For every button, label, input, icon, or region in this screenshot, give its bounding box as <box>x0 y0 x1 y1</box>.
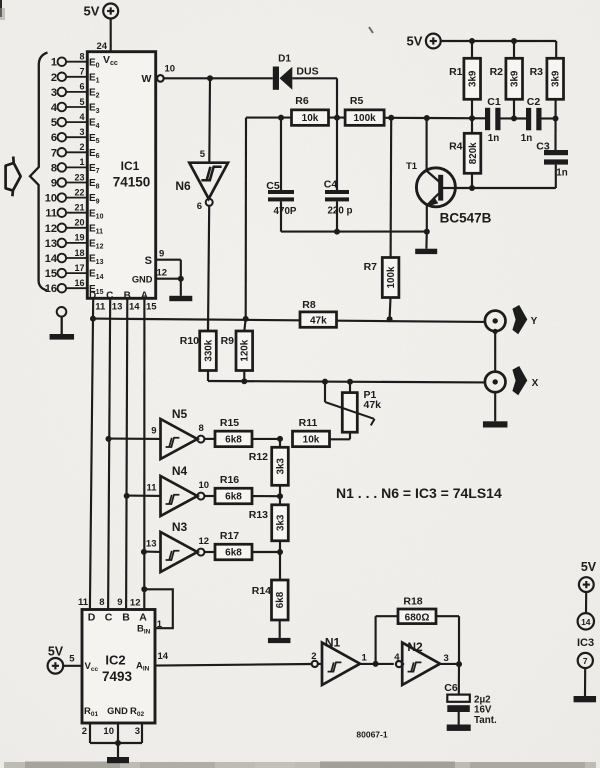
diode D1 <box>210 54 337 90</box>
node R16-R12-R13 <box>277 493 283 499</box>
svg-text:13: 13 <box>112 302 123 313</box>
node T1 emitter ground <box>424 229 430 235</box>
svg-text:T1: T1 <box>406 161 418 172</box>
potentiometer P1 <box>325 382 381 440</box>
capacitor C4 <box>324 118 353 232</box>
svg-text:R17: R17 <box>220 530 239 542</box>
IC1 input E11 pin 20 row 12 <box>45 218 103 236</box>
IC2 top pin numbers <box>78 597 141 609</box>
IC1 input E14 pin 17 row 15 <box>45 263 104 281</box>
svg-text:22: 22 <box>74 187 84 197</box>
svg-text:C6: C6 <box>444 682 458 694</box>
svg-text:2: 2 <box>79 142 84 152</box>
svg-text:BC547B: BC547B <box>440 211 492 226</box>
IC2 bottom pins 2 10 3 <box>82 723 142 743</box>
wire bus B line IC1 pin14 to IC2 pin9 <box>126 298 127 609</box>
svg-text:12: 12 <box>157 268 168 279</box>
IC1 input E1 pin 7 row 2 <box>51 67 100 85</box>
svg-text:3k3: 3k3 <box>275 458 286 475</box>
wire 5V rail <box>441 40 557 42</box>
svg-text:1: 1 <box>51 57 57 69</box>
svg-text:100k: 100k <box>353 113 376 124</box>
resistor R3 <box>530 41 564 150</box>
svg-text:R2: R2 <box>490 66 504 78</box>
svg-text:7: 7 <box>51 147 57 159</box>
svg-text:21: 21 <box>74 203 84 213</box>
svg-text:5V: 5V <box>48 645 64 659</box>
svg-text:9: 9 <box>117 597 122 608</box>
resistor R18 <box>376 596 459 665</box>
svg-text:6: 6 <box>197 201 202 212</box>
wire R6 left leg down to R9/Y node <box>245 118 247 319</box>
arrow X <box>512 366 527 395</box>
input connector brace <box>30 53 48 291</box>
svg-text:R15: R15 <box>220 417 239 429</box>
wire Y line <box>93 319 485 322</box>
wire T1 collector to C3 <box>454 187 556 189</box>
svg-text:R4: R4 <box>449 141 463 153</box>
IC1 input E6 pin 2 row 7 <box>51 142 100 160</box>
IC2 Vcc pin 5 <box>63 654 98 674</box>
wire N6 input from node W <box>208 78 211 162</box>
inverter N3 <box>146 520 209 572</box>
ground IC3 pin7 <box>574 668 597 702</box>
svg-text:5: 5 <box>69 654 75 665</box>
svg-text:1n: 1n <box>521 133 532 144</box>
svg-text:6k8: 6k8 <box>225 548 242 559</box>
svg-text:14: 14 <box>581 617 591 627</box>
wire N4 input <box>127 495 161 497</box>
svg-text:IC3: IC3 <box>577 637 594 649</box>
power 5V supply IC3 <box>579 560 597 592</box>
svg-text:C4: C4 <box>324 179 338 191</box>
IC1 input E10 pin 21 row 11 <box>45 203 103 221</box>
wire C2-R3/C3 <box>542 117 556 119</box>
svg-text:DUS: DUS <box>296 66 318 78</box>
node R5-R7 tap <box>388 115 394 121</box>
ground X connector <box>483 392 508 427</box>
svg-text:R12: R12 <box>249 451 268 463</box>
svg-text:5V: 5V <box>84 4 100 19</box>
node A-line N3 tap <box>141 549 147 555</box>
svg-text:R1: R1 <box>449 66 463 78</box>
connector X output <box>485 372 506 393</box>
svg-text:10k: 10k <box>302 113 319 124</box>
arrow Y <box>512 305 527 334</box>
IC1 pin GND 12 <box>132 268 181 285</box>
svg-text:8: 8 <box>79 52 84 62</box>
svg-text:330k: 330k <box>203 339 214 361</box>
IC1 input E0 pin 8 row 1 <box>51 52 100 70</box>
svg-text:3: 3 <box>79 127 84 137</box>
wire N6 output down to R10 <box>208 206 209 331</box>
node rail R2 <box>511 38 517 44</box>
transistor T1 <box>406 118 492 232</box>
svg-text:R18: R18 <box>403 596 422 608</box>
svg-text:3: 3 <box>51 87 57 99</box>
svg-text:B: B <box>122 612 130 624</box>
scan artifact bottom band <box>4 762 596 768</box>
svg-text:14: 14 <box>129 302 140 313</box>
scan artifact small tick <box>369 27 373 33</box>
svg-text:220 p: 220 p <box>327 206 352 217</box>
svg-text:7: 7 <box>583 656 588 666</box>
wire R5 node down to R7 <box>390 118 393 258</box>
inverter N2 <box>394 640 449 685</box>
node P1 top <box>347 379 353 385</box>
svg-text:13: 13 <box>146 539 157 550</box>
node C-line N5 tap <box>106 436 112 442</box>
node base T1 tap <box>424 115 430 121</box>
node A-line BIN loop tap <box>141 586 147 592</box>
svg-text:3: 3 <box>444 653 449 664</box>
svg-text:R5: R5 <box>350 95 364 107</box>
power 5V supply top-right <box>407 34 441 49</box>
svg-text:1: 1 <box>362 653 368 664</box>
svg-text:9: 9 <box>159 249 164 260</box>
svg-text:3: 3 <box>135 726 140 737</box>
svg-text:5V: 5V <box>407 34 423 49</box>
svg-text:7493: 7493 <box>102 669 133 684</box>
svg-text:10: 10 <box>165 64 176 75</box>
svg-text:9: 9 <box>151 426 156 437</box>
svg-text:N6: N6 <box>175 179 191 193</box>
IC1 input E4 pin 4 row 5 <box>51 112 100 130</box>
svg-text:2: 2 <box>82 726 87 737</box>
svg-text:C2: C2 <box>527 96 541 108</box>
svg-text:N5: N5 <box>172 407 188 421</box>
svg-text:Y: Y <box>531 316 538 327</box>
ground IC1 S/GND <box>169 279 192 301</box>
ground R14 <box>268 638 291 643</box>
node R6-C5 <box>278 115 284 121</box>
svg-text:C: C <box>105 612 113 624</box>
IC2 top labels D C B A <box>88 612 148 624</box>
svg-text:1: 1 <box>79 157 84 167</box>
node R2-C1-C2 <box>511 115 517 121</box>
svg-text:R14: R14 <box>252 585 271 597</box>
svg-text:680Ω: 680Ω <box>405 612 430 623</box>
svg-text:GND: GND <box>107 706 128 716</box>
svg-text:R11: R11 <box>299 417 318 429</box>
svg-text:N4: N4 <box>172 464 188 478</box>
node N1-N2-R18 <box>373 661 379 667</box>
ground C6 <box>447 725 471 731</box>
svg-text:6k8: 6k8 <box>275 591 286 608</box>
resistor R11 <box>293 417 330 447</box>
node R6-R5-D1 <box>334 115 340 121</box>
node R9 bottom <box>241 378 247 384</box>
svg-text:14: 14 <box>158 651 169 662</box>
svg-text:23: 23 <box>74 172 84 182</box>
svg-text:1n: 1n <box>556 168 567 179</box>
svg-text:18: 18 <box>74 248 84 258</box>
svg-text:2: 2 <box>51 72 57 84</box>
wire C1-C2 <box>501 117 527 119</box>
svg-text:5V: 5V <box>581 560 597 574</box>
IC3 pin 7 circle <box>578 653 593 668</box>
resistor R16 <box>204 474 280 504</box>
ground IC2 <box>107 743 129 763</box>
resistor R15 <box>204 417 280 447</box>
svg-text:6: 6 <box>79 82 84 92</box>
svg-text:X: X <box>532 378 539 389</box>
svg-text:820k: 820k <box>468 142 479 164</box>
node R17-R13-R14 <box>277 549 283 555</box>
svg-text:74150: 74150 <box>113 175 151 190</box>
svg-text:47k: 47k <box>310 315 327 326</box>
svg-text:4: 4 <box>79 112 84 122</box>
svg-text:R13: R13 <box>249 509 268 521</box>
wire bus C line IC1 pin13 to IC2 pin8 <box>108 298 110 609</box>
svg-text:3k3: 3k3 <box>275 514 286 531</box>
svg-text:3k9: 3k9 <box>551 70 562 87</box>
resistor R7 <box>364 258 399 319</box>
svg-text:15: 15 <box>146 302 157 313</box>
resistor R10 <box>180 319 217 381</box>
resistor R9 <box>221 319 253 381</box>
wire 5V to IC1 pin 24 <box>110 19 112 53</box>
wire D1 anode down to R6/R5 node <box>336 78 338 117</box>
svg-text:5: 5 <box>79 97 84 107</box>
svg-text:11: 11 <box>78 597 89 608</box>
svg-text:16V: 16V <box>474 705 492 716</box>
node R1-R4 <box>469 115 475 121</box>
svg-text:R9: R9 <box>221 335 235 347</box>
svg-text:R16: R16 <box>220 474 239 486</box>
svg-text:R3: R3 <box>530 66 544 78</box>
svg-text:11: 11 <box>45 208 57 220</box>
svg-text:8: 8 <box>199 423 204 434</box>
svg-text:GND: GND <box>132 275 153 285</box>
IC1 input E7 pin 1 row 8 <box>51 157 100 175</box>
capacitor C6 tantalum <box>444 664 497 726</box>
node R15-R11-R12 <box>277 436 283 442</box>
svg-text:IC1: IC1 <box>121 159 140 173</box>
node rail R1 <box>469 38 475 44</box>
resistor R8 <box>300 299 337 328</box>
svg-text:14: 14 <box>45 253 58 265</box>
node R7-Y wire <box>387 316 393 322</box>
wire Y to X connector <box>494 331 496 371</box>
resistor R4 <box>449 118 481 188</box>
svg-text:11: 11 <box>146 483 157 494</box>
wire X line <box>208 381 485 382</box>
svg-text:6k8: 6k8 <box>225 492 242 503</box>
wire IC2 pin14 to N1 <box>155 664 312 666</box>
svg-text:1n: 1n <box>488 133 499 144</box>
svg-text:5: 5 <box>200 149 206 160</box>
svg-text:8: 8 <box>51 162 57 174</box>
wire bus A line IC1 pin15 to IC2 pin12 <box>143 298 145 609</box>
IC2 AIN pin 14 <box>136 651 169 673</box>
IC1 input E15 pin 16 row 16 <box>45 278 104 296</box>
IC2 bottom labels R01 GND R02 <box>84 706 144 718</box>
inverter N1 <box>311 636 367 686</box>
node N2-R18-C6 <box>456 661 462 667</box>
connector Y output <box>485 311 506 332</box>
svg-text:10: 10 <box>103 726 114 737</box>
inverter N4 <box>146 464 209 516</box>
svg-text:N3: N3 <box>172 520 188 534</box>
svg-text:19: 19 <box>74 233 84 243</box>
IC1 bottom pin numbers 11 13 14 15 <box>95 302 157 313</box>
IC1 input E9 pin 22 row 10 <box>45 187 100 205</box>
svg-text:N1 . . . N6 = IC3 = 74LS14: N1 . . . N6 = IC3 = 74LS14 <box>336 485 502 501</box>
svg-text:C1: C1 <box>487 96 501 108</box>
node R9 top <box>243 316 249 322</box>
wire N1 out to N2 in <box>360 663 394 665</box>
svg-text:S: S <box>145 255 152 267</box>
resistor R17 <box>204 530 280 560</box>
IC1 74150 body <box>87 52 155 299</box>
resistor R5 <box>345 95 427 125</box>
resistor R1 <box>449 41 480 118</box>
IC1 input E2 pin 6 row 3 <box>51 82 100 100</box>
wire bus D line IC1 pin11 to IC2 pin11 <box>90 298 93 609</box>
resistor R14 <box>252 552 288 638</box>
capacitor C3 <box>536 141 568 189</box>
svg-text:13: 13 <box>45 238 57 250</box>
svg-text:D: D <box>88 612 96 624</box>
svg-text:12: 12 <box>130 598 141 609</box>
svg-text:16: 16 <box>74 278 84 288</box>
svg-text:A: A <box>139 612 147 624</box>
IC1 pin S 9 <box>145 249 181 279</box>
svg-text:D1: D1 <box>278 54 291 65</box>
svg-text:20: 20 <box>74 218 84 228</box>
resistor R2 <box>490 41 523 118</box>
svg-text:8: 8 <box>99 597 104 608</box>
svg-text:47k: 47k <box>364 399 382 411</box>
capacitor C5 <box>266 118 297 232</box>
svg-text:80067-1: 80067-1 <box>356 730 387 740</box>
IC1 pin W 10 output <box>142 64 210 86</box>
svg-text:7: 7 <box>79 67 84 77</box>
svg-text:10: 10 <box>45 193 57 205</box>
IC2 BIN pin 1 with loop from A <box>137 589 173 635</box>
svg-text:12: 12 <box>45 223 57 235</box>
svg-text:12: 12 <box>199 536 210 547</box>
power 5V supply IC2 <box>48 645 64 674</box>
svg-text:11: 11 <box>95 302 106 313</box>
IC1 input E5 pin 3 row 6 <box>51 127 100 145</box>
ground input common <box>50 307 75 340</box>
IC1 input E13 pin 18 row 14 <box>45 248 104 266</box>
svg-text:17: 17 <box>74 263 84 273</box>
node W-D1-N6 <box>207 75 213 81</box>
input bus arrow symbol <box>6 157 21 197</box>
svg-text:IC2: IC2 <box>105 653 125 668</box>
ground T1 emitter <box>415 232 437 254</box>
svg-text:R6: R6 <box>295 95 309 107</box>
inverter N6 <box>175 149 228 212</box>
scan artifact left edge <box>0 0 2 17</box>
node S-GND junction <box>178 276 184 282</box>
svg-text:6k8: 6k8 <box>225 435 242 446</box>
IC1 bottom labels D C B A <box>89 291 148 302</box>
svg-text:100k: 100k <box>386 266 397 288</box>
node IC2 ground <box>115 740 121 746</box>
svg-text:3k9: 3k9 <box>468 70 479 87</box>
node C4 ground <box>334 229 340 235</box>
svg-text:R8: R8 <box>302 299 316 311</box>
resistor R12 <box>249 439 289 496</box>
inverter N5 <box>151 407 204 459</box>
svg-text:470P: 470P <box>274 206 297 217</box>
resistor R6 <box>246 95 345 125</box>
IC1 input E8 pin 23 row 9 <box>51 172 100 190</box>
svg-text:9: 9 <box>51 178 57 190</box>
IC3 pin 14 circle <box>578 613 594 629</box>
node R3-C3 <box>553 116 559 122</box>
svg-text:Tant.: Tant. <box>474 715 497 726</box>
wire 5V to IC3 pin14 <box>585 592 587 613</box>
wire ground rail C5 C4 emitter <box>281 231 427 233</box>
IC1 input E12 pin 19 row 13 <box>45 233 104 251</box>
node B-line N4 tap <box>124 493 130 499</box>
svg-text:15: 15 <box>45 268 57 280</box>
svg-text:3k9: 3k9 <box>510 70 521 87</box>
node D-line Y-wire tap <box>90 316 96 322</box>
wire N3 input <box>144 551 161 553</box>
svg-text:5: 5 <box>51 117 57 129</box>
IC2 7493 body <box>82 610 155 724</box>
svg-text:R7: R7 <box>364 261 378 273</box>
wire N5 input <box>109 438 161 440</box>
svg-text:R10: R10 <box>180 335 199 347</box>
node R4-collector <box>469 185 475 191</box>
svg-text:10k: 10k <box>303 435 320 446</box>
node P1 wiper tap <box>322 379 328 385</box>
resistor R13 <box>249 496 289 552</box>
capacitor C1 <box>485 96 501 144</box>
svg-text:120k: 120k <box>240 339 251 361</box>
svg-text:W: W <box>142 73 152 85</box>
capacitor C2 <box>521 96 542 144</box>
wire node row to C1 <box>427 117 485 119</box>
svg-text:6: 6 <box>51 132 57 144</box>
wire N2 out to C6 node <box>440 663 459 665</box>
IC1 input E3 pin 5 row 4 <box>51 97 100 115</box>
svg-text:10: 10 <box>199 480 210 491</box>
